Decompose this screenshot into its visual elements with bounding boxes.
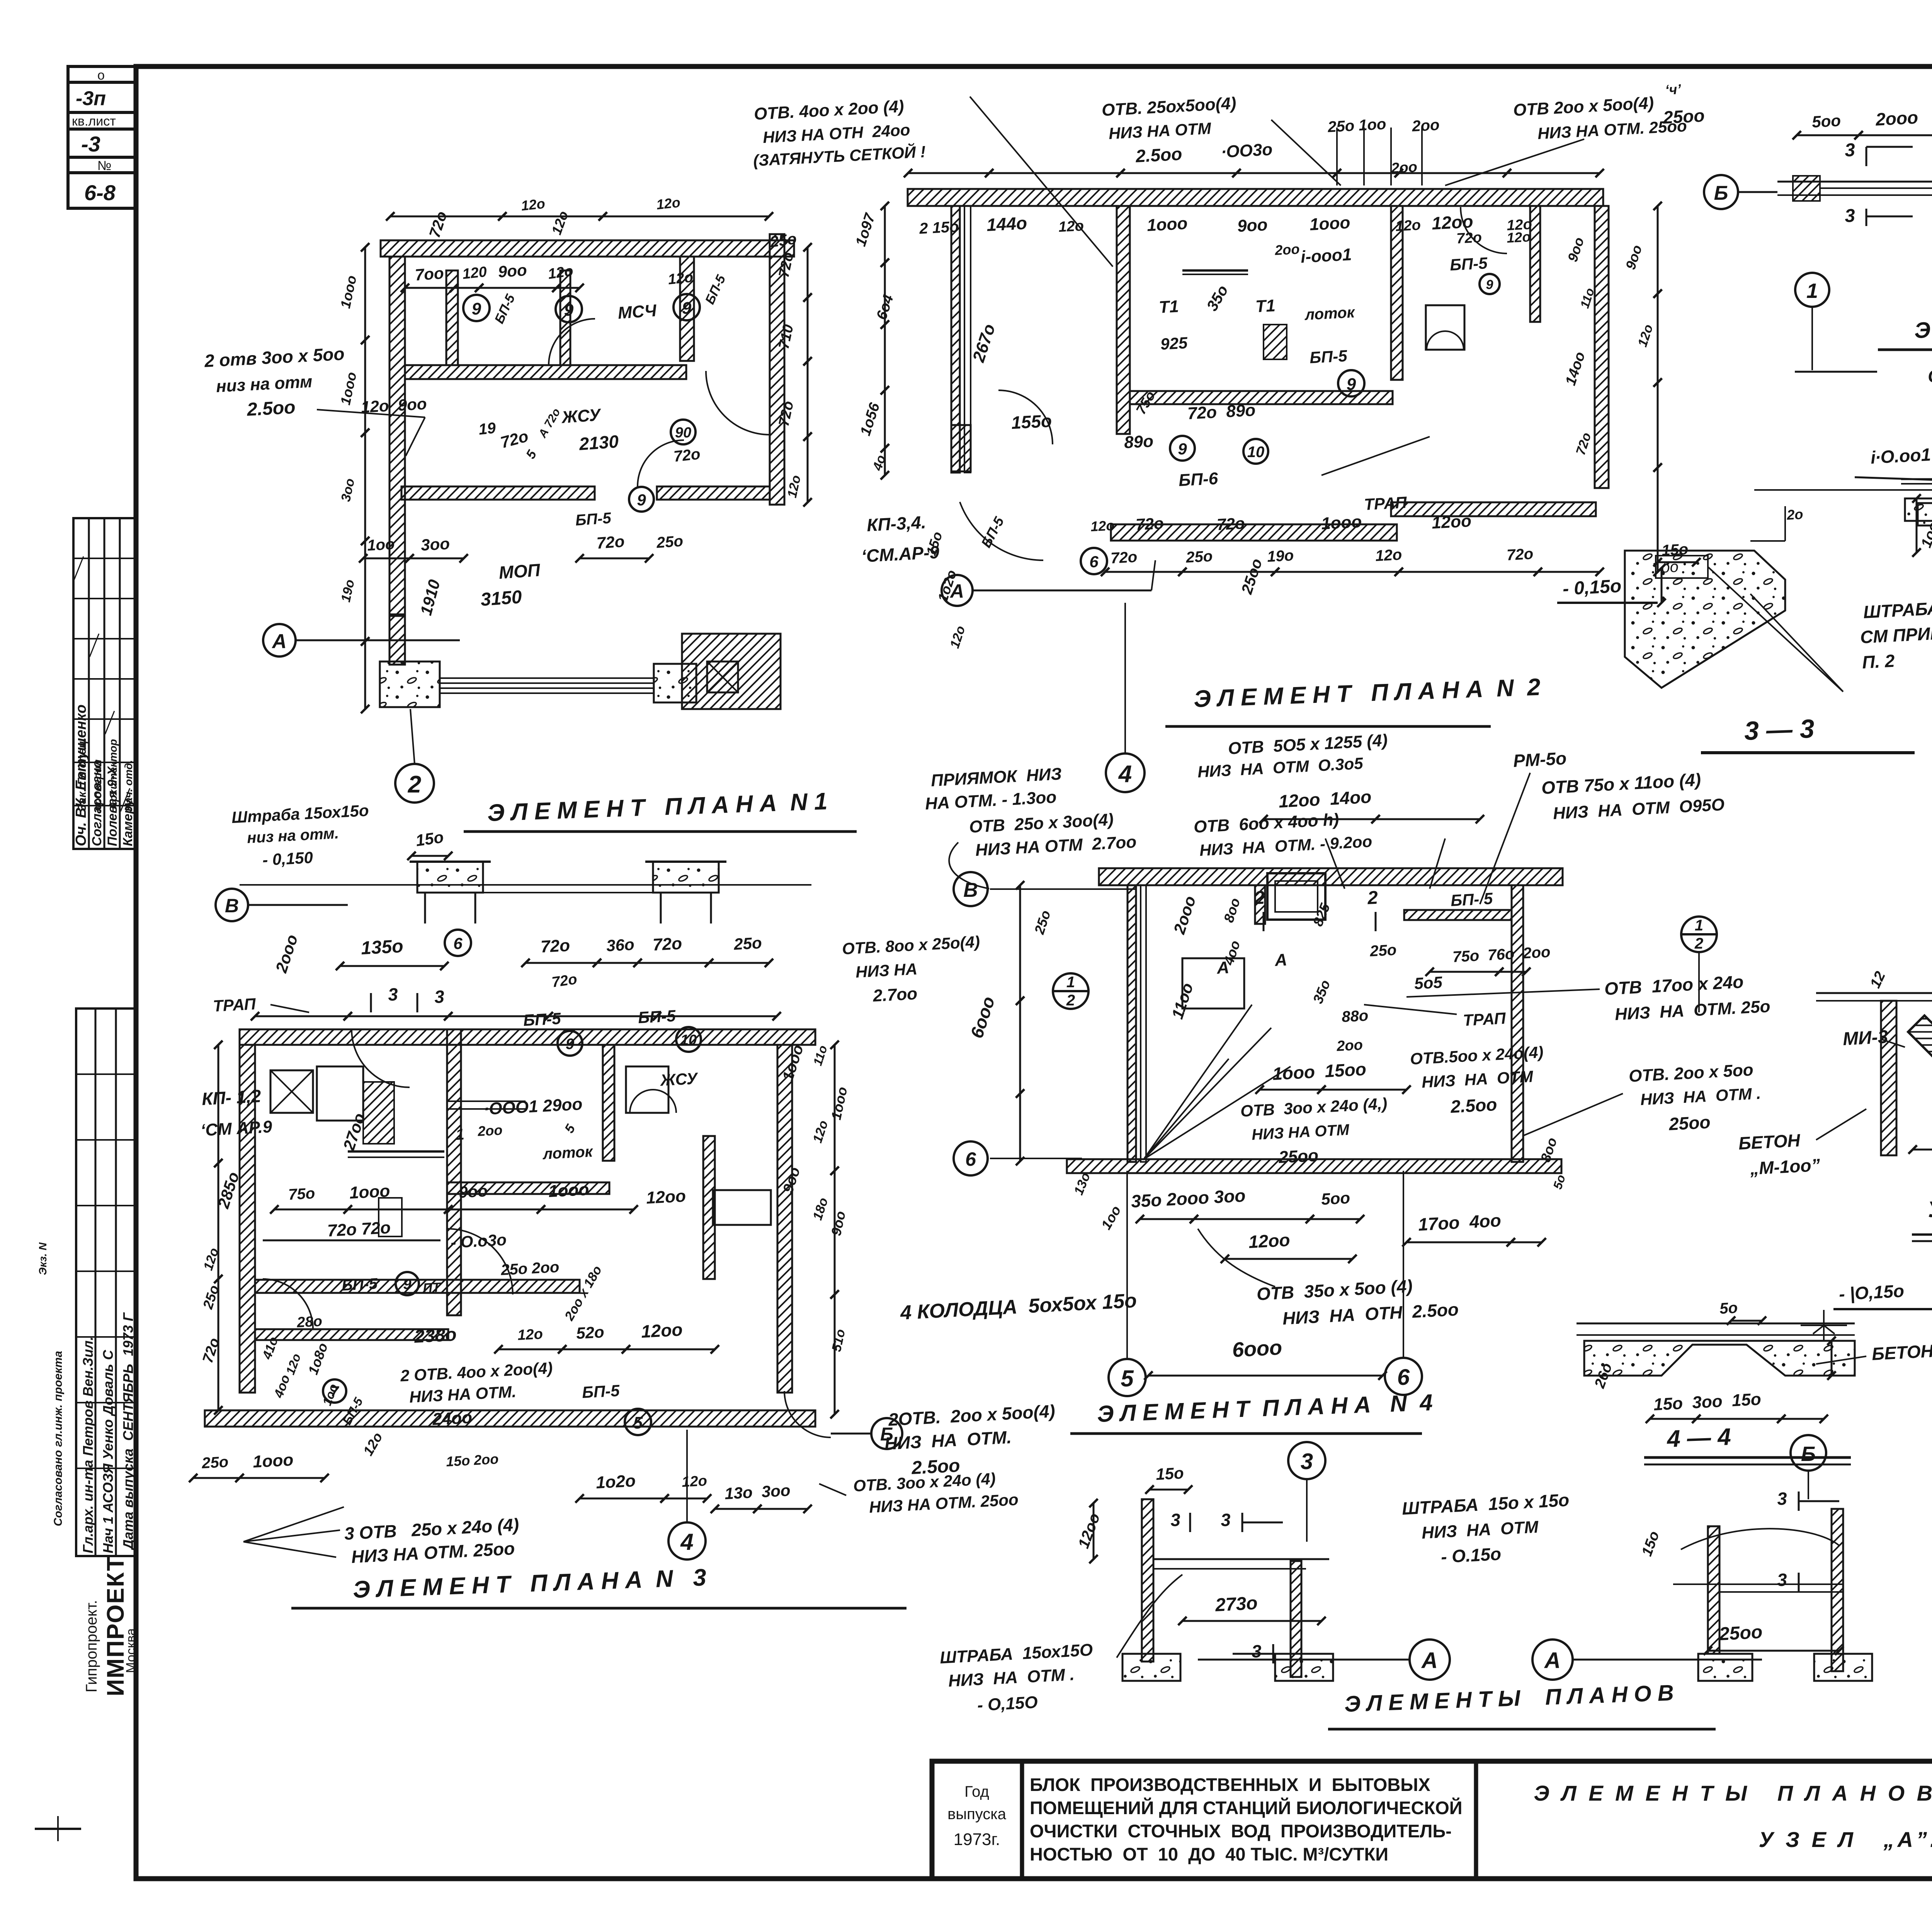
svg-text:Год: Год — [964, 1783, 989, 1800]
svg-text:7оо: 7оо — [414, 264, 444, 284]
svg-text:9: 9 — [564, 301, 574, 320]
svg-text:120: 120 — [462, 264, 488, 282]
svg-text:2.5оо: 2.5оо — [1450, 1094, 1498, 1117]
svg-text:25оо: 25оо — [1662, 105, 1705, 128]
top-left stamp boxes — [68, 66, 136, 82]
svg-text:Москва: Москва — [124, 1628, 138, 1673]
svg-text:28о: 28о — [296, 1313, 323, 1331]
concrete detail with shtraba left — [1625, 551, 1785, 688]
svg-text:3: 3 — [1777, 1570, 1788, 1590]
svg-text:9: 9 — [566, 1036, 575, 1053]
svg-text:6ооо: 6ооо — [1231, 1336, 1282, 1362]
axis circle B right of plan 3 — [871, 1418, 902, 1449]
svg-text:2оо: 2оо — [1274, 241, 1300, 258]
svg-text:12о: 12о — [681, 1473, 707, 1490]
svg-text:15о: 15о — [1661, 541, 1689, 559]
plan element 2 small fixtures — [1426, 305, 1464, 350]
svg-text:БЕТОН: БЕТОН — [1738, 1130, 1801, 1153]
svg-text:15о 2оо: 15о 2оо — [446, 1451, 499, 1469]
svg-text:12оо: 12оо — [1248, 1230, 1291, 1252]
svg-text:БЛОК ПРОИЗВОДСТВЕННЫХ И БЫТ: БЛОК ПРОИЗВОДСТВЕННЫХ И БЫТОВЫХ — [1030, 1774, 1430, 1795]
svg-text:В: В — [963, 879, 978, 901]
svg-text:9: 9 — [472, 299, 481, 318]
plan element 2 top tick row — [908, 172, 989, 174]
svg-text:ЖСУ: ЖСУ — [659, 1069, 699, 1089]
svg-text:12о: 12о — [656, 194, 681, 213]
svg-text:25оо: 25оо — [1278, 1146, 1319, 1167]
svg-text:12о 9оо: 12о 9оо — [361, 395, 427, 416]
axis circles A bottom middle — [1410, 1639, 1450, 1680]
svg-text:15о: 15о — [1155, 1464, 1184, 1483]
svg-text:9: 9 — [682, 299, 692, 318]
svg-text:6: 6 — [965, 1148, 976, 1170]
plan element 1 lower walls and window — [380, 662, 440, 707]
svg-text:Гипропроект.: Гипропроект. — [83, 1600, 100, 1692]
svg-text:19о: 19о — [1267, 547, 1294, 565]
svg-text:1ооо: 1ооо — [548, 1180, 590, 1201]
plan element 3 axis circle V — [216, 889, 248, 921]
svg-text:12о: 12о — [517, 1326, 543, 1344]
svg-text:238о: 238о — [413, 1324, 457, 1347]
svg-text:1: 1 — [1695, 917, 1703, 934]
svg-text:72о 89о: 72о 89о — [1187, 401, 1256, 423]
plan element 4 leader fan lines — [1144, 1005, 1252, 1159]
svg-text:-3п: -3п — [76, 87, 106, 110]
svg-text:А: А — [271, 630, 287, 653]
axis circle 4 plan 2 — [1106, 753, 1145, 792]
svg-text:25о: 25о — [1185, 548, 1213, 566]
svg-text:1: 1 — [455, 1126, 465, 1143]
svg-text:12о: 12о — [1058, 218, 1084, 235]
svg-text:Архитектор: Архитектор — [107, 739, 119, 810]
svg-text:12о: 12о — [1506, 229, 1531, 246]
svg-text:НИЗ НА: НИЗ НА — [855, 960, 918, 981]
plan element 3 door arcs — [352, 1029, 410, 1087]
svg-text:5о5: 5о5 — [1414, 973, 1443, 993]
svg-text:У З Е Л „А”.: У З Е Л „А”. — [1759, 1827, 1932, 1852]
svg-text:А: А — [1421, 1648, 1438, 1673]
svg-text:№: № — [97, 158, 111, 173]
svg-text:2: 2 — [1367, 888, 1379, 908]
svg-text:25о: 25о — [201, 1453, 229, 1472]
svg-text:3оо: 3оо — [420, 534, 450, 554]
svg-text:Зак. Гл.спец.: Зак. Гл.спец. — [76, 737, 88, 811]
svg-text:2ооо: 2ооо — [1875, 107, 1918, 129]
svg-text:12о: 12о — [667, 269, 694, 288]
svg-text:БП-5: БП-5 — [575, 510, 612, 529]
svg-text:75о: 75о — [288, 1185, 315, 1203]
left margin signature table upper — [73, 518, 136, 849]
svg-text:БП-5: БП-5 — [341, 1275, 378, 1294]
svg-text:Дата выпуска СЕНТЯБРЬ 1973 Г: Дата выпуска СЕНТЯБРЬ 1973 Г — [120, 1312, 136, 1551]
svg-text:72о: 72о — [1135, 514, 1164, 534]
svg-text:25оо: 25оо — [1668, 1112, 1711, 1134]
svg-text:- О.15о: - О.15о — [1440, 1544, 1502, 1567]
svg-text:П. 2: П. 2 — [1862, 651, 1895, 672]
svg-text:5: 5 — [633, 1413, 643, 1432]
axis circle 4 below plan 3 — [668, 1522, 706, 1560]
plan element 3 extra chains — [834, 1045, 836, 1171]
svg-text:БП- 5: БП- 5 — [1450, 889, 1493, 910]
svg-text:ШТРАБА: ШТРАБА — [1863, 598, 1932, 622]
svg-text:9оо: 9оо — [1237, 215, 1268, 236]
svg-text:3: 3 — [1777, 1488, 1788, 1509]
svg-text:6-8: 6-8 — [84, 180, 116, 205]
axis circle 1 top right — [1795, 273, 1829, 307]
svg-text:3: 3 — [1301, 1449, 1313, 1474]
svg-text:25о 2оо: 25о 2оо — [500, 1259, 560, 1279]
svg-text:БП-5: БП-5 — [1309, 347, 1348, 367]
svg-text:оо: оо — [1661, 558, 1679, 576]
svg-text:15о: 15о — [415, 828, 445, 850]
svg-text:о: о — [97, 68, 105, 83]
plan element 1 door arcs — [549, 319, 595, 365]
svg-text:МИ-3: МИ-3 — [1842, 1027, 1889, 1049]
detail MI-3 wall corner — [1816, 992, 1932, 994]
svg-text:ЖСУ: ЖСУ — [560, 405, 602, 427]
svg-text:2о: 2о — [1786, 506, 1803, 523]
svg-text:БП-5: БП-5 — [523, 1009, 561, 1029]
plan element 4 left dim chain — [1019, 885, 1021, 1001]
svg-text:88о: 88о — [1341, 1007, 1369, 1026]
svg-text:52о: 52о — [576, 1323, 605, 1342]
svg-text:135о: 135о — [361, 936, 404, 959]
svg-text:А: А — [1274, 950, 1287, 970]
svg-text:-3: -3 — [81, 132, 100, 156]
svg-text:2оо: 2оо — [1336, 1037, 1363, 1055]
svg-text:3: 3 — [1844, 140, 1856, 161]
plan element 2 leader lines top — [970, 97, 1113, 267]
svg-text:4: 4 — [680, 1529, 693, 1555]
svg-text:6: 6 — [1397, 1365, 1410, 1390]
svg-text:КП- 1,2: КП- 1,2 — [201, 1086, 262, 1109]
svg-text:- О.о3о: - О.о3о — [450, 1230, 507, 1252]
svg-text:9: 9 — [1486, 277, 1493, 292]
svg-text:3: 3 — [388, 984, 399, 1005]
svg-text:72о: 72о — [1506, 545, 1534, 564]
svg-text:1оо: 1оо — [367, 536, 395, 554]
svg-text:3 — 3: 3 — 3 — [1744, 714, 1815, 746]
svg-text:72о: 72о — [596, 532, 625, 552]
svg-text:i-ооо1: i-ооо1 — [1300, 245, 1352, 267]
svg-text:9оо: 9оо — [458, 1182, 488, 1201]
svg-text:Согласовано гл.инж. проекта: Согласовано гл.инж. проекта — [52, 1351, 65, 1526]
svg-text:3: 3 — [434, 986, 445, 1007]
svg-text:2 15о: 2 15о — [918, 218, 959, 237]
svg-text:ПТ: ПТ — [422, 1280, 442, 1296]
svg-text:155о: 155о — [1011, 411, 1052, 433]
svg-text:12оо: 12оо — [646, 1187, 686, 1207]
svg-text:5: 5 — [1121, 1366, 1134, 1391]
svg-text:72о 72о: 72о 72о — [327, 1218, 391, 1240]
svg-text:2оо: 2оо — [477, 1122, 503, 1139]
svg-text:ТРАП: ТРАП — [1364, 493, 1408, 514]
svg-text:36о: 36о — [606, 935, 635, 955]
svg-text:25о: 25о — [733, 934, 762, 953]
svg-text:‘СМ.АР-9: ‘СМ.АР-9 — [861, 542, 940, 566]
svg-text:2: 2 — [1066, 992, 1075, 1009]
svg-text:i∙О.оо1: i∙О.оо1 — [1870, 444, 1931, 468]
plan element 3 walls — [240, 1029, 815, 1045]
svg-text:273о: 273о — [1214, 1593, 1258, 1616]
svg-text:72о: 72о — [540, 936, 570, 956]
svg-text:3: 3 — [1844, 206, 1856, 226]
channel trapezoid section top — [1918, 503, 1932, 556]
svg-text:3: 3 — [1170, 1510, 1181, 1530]
plan element 3 interior fixtures — [317, 1066, 363, 1121]
left margin signature table lower — [76, 1009, 136, 1556]
svg-text:72о: 72о — [1110, 548, 1138, 567]
svg-text:25оо: 25оо — [1718, 1622, 1763, 1645]
svg-text:5о: 5о — [1719, 1299, 1738, 1317]
plan element 4 pryamok rect — [1182, 958, 1244, 1009]
section 4-4 drawing — [1577, 1323, 1855, 1325]
svg-text:5оо: 5оо — [1811, 111, 1841, 131]
svg-text:1973г.: 1973г. — [954, 1830, 1000, 1849]
svg-text:ОЧИСТКИ СТОЧНЫХ ВОД ПРОИЗВО: ОЧИСТКИ СТОЧНЫХ ВОД ПРОИЗВОДИТЕЛЬ- — [1030, 1821, 1452, 1841]
svg-text:- О,15О: - О,15О — [977, 1693, 1038, 1715]
svg-text:проверил: проверил — [92, 759, 104, 811]
svg-text:В: В — [225, 895, 239, 917]
axis circle A plan 2 — [942, 575, 973, 606]
svg-text:4 — 4: 4 — 4 — [1666, 1423, 1731, 1452]
svg-text:Нач. отд.: Нач. отд. — [122, 760, 134, 811]
svg-text:25о 1оо: 25о 1оо — [1327, 116, 1386, 136]
svg-text:Э Л Е М Е Н Т Ы П Л А Н О В: Э Л Е М Е Н Т Ы П Л А Н О В . С Е Ч Е Н … — [1534, 1781, 1932, 1805]
svg-text:9: 9 — [1178, 440, 1187, 458]
svg-text:72о: 72о — [1216, 514, 1245, 534]
axis circle 2 bottom of plan 1 — [395, 764, 434, 803]
svg-text:12оо: 12оо — [1431, 512, 1472, 532]
svg-text:6: 6 — [453, 934, 463, 952]
svg-text:лоток: лоток — [1304, 304, 1355, 323]
svg-text:12о: 12о — [1375, 546, 1402, 565]
svg-text:РМ-5о: РМ-5о — [1513, 748, 1567, 771]
svg-text:МСЧ: МСЧ — [617, 301, 657, 323]
svg-text:3150: 3150 — [480, 587, 523, 610]
svg-text:12о: 12о — [1090, 517, 1115, 534]
plan element 1 axis row circles 9 — [463, 295, 490, 321]
svg-text:Б: Б — [1714, 182, 1728, 204]
axis circle 3 bottom — [1288, 1442, 1325, 1479]
svg-text:‘ч’: ‘ч’ — [1665, 81, 1682, 98]
svg-text:- 0,15о: - 0,15о — [1562, 576, 1622, 599]
svg-text:12о: 12о — [520, 196, 546, 214]
svg-text:НОСТЬЮ ОТ 10 ДО 40 ТЫС. М³: НОСТЬЮ ОТ 10 ДО 40 ТЫС. М³/СУТКИ — [1030, 1844, 1388, 1864]
svg-text:10: 10 — [680, 1032, 697, 1048]
svg-text:1о2о: 1о2о — [595, 1471, 636, 1492]
svg-text:2130: 2130 — [578, 431, 619, 454]
svg-text:3: 3 — [1251, 1641, 1262, 1662]
svg-text:72о: 72о — [652, 934, 682, 954]
svg-text:1ооо: 1ооо — [349, 1182, 391, 1202]
svg-text:„М-1оо”: „М-1оо” — [1749, 1155, 1821, 1179]
svg-text:4: 4 — [1118, 761, 1132, 787]
axis circle A left — [263, 624, 296, 656]
svg-text:3: 3 — [1220, 1510, 1231, 1530]
svg-text:89о: 89о — [1124, 432, 1154, 452]
svg-text:ИМПРОЕКТ: ИМПРОЕКТ — [102, 1556, 129, 1696]
plan element 3 top fixtures — [417, 862, 483, 893]
svg-text:1: 1 — [1806, 279, 1818, 303]
svg-text:КП-3,4.: КП-3,4. — [866, 512, 927, 535]
svg-text:9оо: 9оо — [497, 261, 527, 281]
svg-text:2: 2 — [1253, 888, 1265, 908]
svg-text:9: 9 — [403, 1276, 411, 1293]
svg-text:‘СМ АР.9: ‘СМ АР.9 — [200, 1117, 273, 1140]
svg-text:13о 3оо: 13о 3оо — [724, 1481, 791, 1503]
svg-text:12оо: 12оо — [641, 1319, 683, 1342]
svg-text:2.7оо: 2.7оо — [872, 984, 918, 1005]
svg-text:1ооо: 1ооо — [252, 1451, 294, 1471]
svg-text:72о: 72о — [1456, 230, 1482, 247]
svg-text:9: 9 — [637, 491, 646, 509]
svg-text:∙ОО3о: ∙ОО3о — [1221, 140, 1273, 162]
svg-text:2.5оо: 2.5оо — [911, 1455, 961, 1478]
plan element 2 door arcs — [998, 390, 1053, 444]
svg-text:10: 10 — [1247, 444, 1265, 461]
svg-text:2.5оо: 2.5оо — [246, 397, 296, 420]
svg-text:Нач 1 АСОЗЯ Уенко Доваль С: Нач 1 АСОЗЯ Уенко Доваль С — [100, 1350, 116, 1553]
svg-text:ТРАП: ТРАП — [1463, 1009, 1507, 1029]
svg-text:2оо: 2оо — [1411, 116, 1440, 135]
svg-text:- |О,15о: - |О,15о — [1838, 1281, 1905, 1304]
svg-text:2: 2 — [408, 771, 421, 798]
plan element 1 left dimension chain — [364, 247, 366, 340]
svg-text:12о: 12о — [1395, 217, 1421, 235]
svg-text:А: А — [1216, 958, 1230, 978]
bottom left small mark — [35, 1828, 81, 1830]
svg-text:МОП: МОП — [498, 560, 541, 583]
title block — [932, 1761, 1932, 1879]
axis circle B bottom right — [1791, 1435, 1826, 1471]
svg-text:72о: 72о — [673, 446, 701, 465]
svg-text:ПОМЕЩЕНИЙ ДЛЯ СТАНЦИЙ БИОЛОГИЧ: ПОМЕЩЕНИЙ ДЛЯ СТАНЦИЙ БИОЛОГИЧЕСКОЙ — [1030, 1798, 1463, 1818]
svg-text:9: 9 — [1347, 375, 1356, 394]
svg-text:1ооо: 1ооо — [1309, 213, 1351, 234]
plan element 1 right dim chain — [807, 247, 809, 298]
svg-text:25о: 25о — [656, 532, 684, 551]
plan element 4 grid dashed lines — [990, 888, 1136, 890]
svg-text:2: 2 — [1694, 935, 1703, 952]
plan element 2 right dim chain — [1657, 206, 1659, 294]
plan element 2 walls — [908, 189, 1603, 206]
svg-text:выпуска: выпуска — [947, 1806, 1007, 1823]
svg-text:1: 1 — [1066, 974, 1075, 991]
svg-text:1ооо: 1ооо — [1321, 512, 1362, 533]
svg-text:24оо: 24оо — [432, 1408, 473, 1429]
svg-text:Т1: Т1 — [1255, 296, 1276, 316]
svg-text:Гл.арх. ин-та Петров Вен.Зил.: Гл.арх. ин-та Петров Вен.Зил. — [80, 1337, 96, 1553]
svg-text:БП-6: БП-6 — [1178, 469, 1219, 490]
svg-text:Б: Б — [1801, 1442, 1816, 1466]
svg-text:БП-5: БП-5 — [1449, 254, 1488, 274]
svg-text:144о: 144о — [986, 213, 1027, 235]
svg-text:925: 925 — [1160, 333, 1188, 353]
svg-text:кв.лист: кв.лист — [72, 114, 116, 129]
svg-text:7: 7 — [330, 1384, 339, 1400]
svg-text:5оо: 5оо — [1321, 1189, 1350, 1208]
svg-text:19: 19 — [478, 419, 497, 438]
plan element 4 axis circles — [954, 872, 988, 906]
svg-text:А: А — [949, 580, 964, 602]
svg-text:А: А — [1544, 1648, 1561, 1673]
svg-text:БП-5: БП-5 — [582, 1381, 620, 1401]
svg-text:25о: 25о — [1369, 941, 1397, 960]
svg-text:2.5оо: 2.5оо — [1135, 144, 1183, 166]
plan element 3 upper left room fixtures — [270, 1070, 313, 1113]
svg-text:ТРАП: ТРАП — [213, 995, 257, 1015]
svg-text:6: 6 — [1089, 553, 1099, 571]
svg-text:Т1: Т1 — [1158, 297, 1179, 317]
plan element 1 dimension row below top wall — [405, 287, 454, 289]
plan element 4 walls — [1099, 868, 1563, 885]
svg-text:лоток: лоток — [542, 1143, 594, 1163]
svg-text:- 0,150: - 0,150 — [262, 848, 313, 869]
plan element 1 walls — [381, 240, 794, 257]
plan element 1 extra top dim row — [390, 216, 502, 218]
plan element 2 top tick verticals — [1336, 128, 1338, 185]
svg-text:90: 90 — [675, 425, 691, 441]
svg-text:1ооо: 1ооо — [1146, 214, 1188, 235]
svg-text:Экз. N: Экз. N — [37, 1242, 49, 1275]
